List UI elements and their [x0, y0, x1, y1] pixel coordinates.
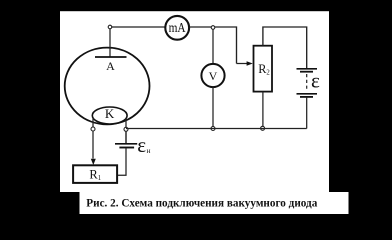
battery EMF cell 2 long plate: [297, 93, 318, 95]
wire: mA to wiper corner: [189, 27, 236, 64]
svg-text:Рис. 2. Схема подключения ваку: Рис. 2. Схема подключения вакуумного дио…: [86, 197, 317, 209]
bottom wire: [126, 128, 307, 130]
wire: anode node to mA: [112, 26, 166, 28]
voltmeter V: [201, 64, 224, 87]
node R2 bottom: [261, 126, 265, 130]
arrow into R1: [91, 159, 96, 165]
R2 top lead and wire to battery: [263, 27, 307, 68]
cathode K: [92, 107, 127, 124]
node voltmeter bottom: [211, 127, 215, 131]
node on top wire (voltmeter tap): [211, 26, 215, 30]
battery EMF cell 1 short plate: [300, 71, 313, 73]
wire: top node down to voltmeter: [212, 29, 214, 65]
anode plate A: [95, 56, 127, 58]
battery bottom lead: [306, 98, 308, 129]
filament battery lead from cathode node: [125, 131, 127, 144]
cathode left lead wire: [92, 118, 94, 159]
R2 bottom lead: [262, 92, 264, 129]
milliammeter mA: [165, 16, 189, 40]
battery EMF cell 2 short plate: [300, 96, 313, 98]
svg-text:mA: mA: [169, 21, 187, 36]
node at anode terminal: [108, 25, 112, 29]
filament battery short plate: [119, 147, 134, 149]
wiper arrow into R2: [237, 63, 248, 65]
svg-text:ε: ε: [137, 133, 146, 157]
wire: voltmeter to bottom wire: [212, 87, 214, 129]
svg-text:V: V: [209, 69, 218, 83]
resistor R2 (potentiometer): [254, 46, 273, 92]
white picture area: [60, 11, 329, 192]
svg-text:A: A: [106, 59, 115, 73]
svg-text:K: K: [105, 106, 115, 121]
node cathode left terminal: [91, 127, 95, 131]
svg-text:ε: ε: [311, 69, 320, 93]
battery dashed middle section: [306, 74, 308, 91]
vacuum diode tube envelope: [65, 48, 150, 125]
resistor R1: [73, 165, 117, 183]
svg-text:н: н: [147, 146, 151, 155]
white caption strip: [80, 192, 349, 214]
cathode right lead wire: [125, 119, 127, 144]
node cathode right terminal: [124, 127, 128, 131]
filament battery long plate: [115, 143, 137, 145]
wire: filament battery to R1: [117, 148, 126, 175]
battery EMF cell 1 long plate: [297, 68, 318, 70]
anode lead wire: [109, 29, 111, 58]
